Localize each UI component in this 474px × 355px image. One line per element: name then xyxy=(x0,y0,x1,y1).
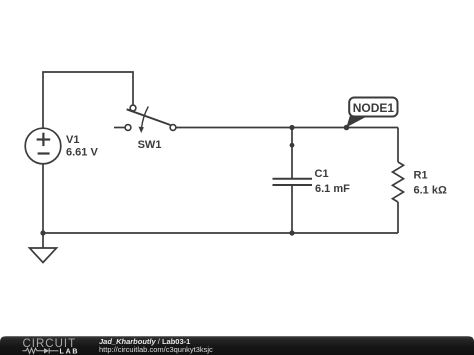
svg-text:V1: V1 xyxy=(66,134,79,146)
svg-text:C1: C1 xyxy=(315,168,329,180)
svg-text:6.1 kΩ: 6.1 kΩ xyxy=(414,185,447,197)
svg-text:LAB: LAB xyxy=(60,349,80,355)
svg-text:NODE1: NODE1 xyxy=(353,101,395,115)
svg-text:http://circuitlab.com/c3qunkyt: http://circuitlab.com/c3qunkyt3ksjc xyxy=(99,345,213,354)
svg-text:6.1 mF: 6.1 mF xyxy=(315,183,350,195)
svg-text:R1: R1 xyxy=(414,170,428,182)
svg-text:SW1: SW1 xyxy=(138,139,162,151)
svg-text:6.61 V: 6.61 V xyxy=(66,147,98,159)
